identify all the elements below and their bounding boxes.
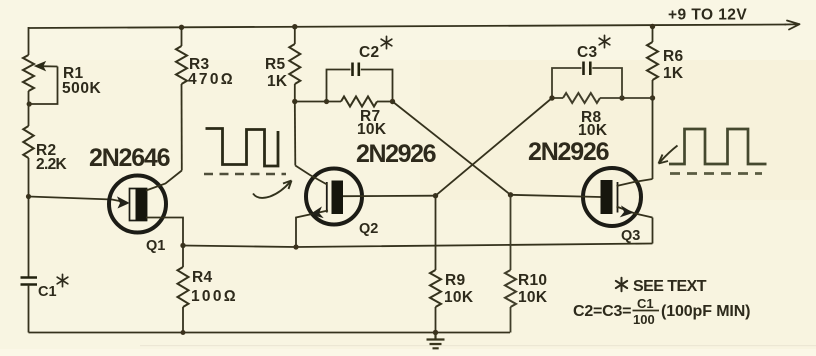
wire Q3 collector vertical	[652, 98, 654, 179]
junction dot C2 left	[324, 99, 329, 104]
svg-text:Q1: Q1	[146, 238, 165, 254]
junction dot R10 top	[508, 192, 513, 197]
wire R6 to node	[652, 80, 654, 98]
wire R7 left lead	[295, 101, 341, 103]
svg-text:2N2926: 2N2926	[356, 140, 436, 168]
resistor R4 zigzag	[178, 267, 189, 307]
wire Q2 collector vertical	[294, 102, 297, 166]
svg-text:SEE TEXT: SEE TEXT	[633, 278, 707, 295]
svg-text:R10: R10	[518, 272, 547, 289]
svg-text:1K: 1K	[267, 73, 288, 90]
transistor Q3 emitter arrowhead	[621, 206, 633, 217]
svg-text:10K: 10K	[518, 289, 548, 306]
junction dot R8 left	[549, 95, 554, 100]
wire Q2 emitter lead	[296, 211, 328, 248]
transistor Q2 base bar thin	[326, 182, 328, 213]
resistor R7 zigzag	[341, 97, 377, 107]
svg-text:10K: 10K	[444, 289, 474, 306]
junction dot emitter node	[26, 194, 31, 199]
label C2 asterisk	[381, 36, 392, 48]
wire R1 to R2	[28, 91, 30, 126]
junction dot R4 top	[180, 243, 185, 248]
wire Q2 base lead	[343, 195, 436, 198]
transistor Q2 emitter arrowhead	[311, 207, 323, 217]
wire rail to R5	[294, 27, 296, 44]
junction dot R9 top	[433, 193, 438, 198]
svg-text:R4: R4	[192, 269, 212, 286]
wire C1 to ground rail	[28, 285, 30, 333]
waveform right dashed baseline	[670, 172, 762, 175]
svg-text:C2: C2	[359, 44, 379, 61]
wire Q3 collector lead	[617, 179, 653, 186]
wire R5 to collector node	[294, 84, 296, 102]
junction dot rail R3	[179, 25, 184, 30]
wire R10 lower	[510, 307, 512, 333]
svg-text:100: 100	[633, 312, 655, 327]
resistor R10 zigzag	[505, 270, 516, 307]
transistor Q3 base bar thin	[617, 182, 619, 213]
wire Q1 base1 lead	[146, 218, 183, 246]
waveform left dashed baseline	[204, 173, 286, 176]
capacitor C2 loop right	[361, 70, 393, 102]
note fraction bar	[633, 310, 660, 312]
wire cross coupling R7 to Q3 base	[393, 102, 511, 195]
capacitor C3 loop left	[552, 68, 582, 98]
wire R4 top lead	[182, 246, 184, 268]
junction dot R8 right	[619, 95, 624, 100]
wire Q3 emitter down	[652, 218, 654, 244]
wire R10 upper	[510, 195, 512, 270]
svg-text:10K: 10K	[578, 122, 608, 139]
svg-text:C1: C1	[38, 284, 57, 300]
wire R8 zig to right lead	[600, 97, 622, 99]
wire Q2 collector lead	[295, 166, 327, 185]
transistor Q1 emitter arrowhead	[118, 198, 129, 208]
waveform right square wave	[669, 129, 767, 164]
svg-text:R6: R6	[663, 48, 683, 65]
transistor Q2 circle	[306, 169, 362, 225]
wire cross coupling R8 to Q2 base	[436, 98, 553, 196]
note asterisk	[616, 278, 627, 291]
junction dot R9 ground	[433, 330, 438, 335]
svg-text:Q3: Q3	[621, 228, 640, 244]
wire R9 lower	[435, 307, 437, 333]
wire rail to R3	[181, 27, 183, 46]
power arrowhead	[785, 21, 800, 30]
resistor R8 zigzag	[563, 93, 600, 103]
svg-text:C2=C3=: C2=C3=	[573, 303, 632, 320]
resistor R3 zigzag	[176, 46, 187, 84]
svg-text:1K: 1K	[663, 65, 684, 82]
resistor R9 zigzag	[430, 270, 441, 307]
svg-text:100Ω: 100Ω	[191, 288, 236, 305]
junction dot rail R6	[650, 24, 655, 29]
svg-text:R5: R5	[265, 56, 285, 73]
wire Q3 base lead	[511, 195, 601, 197]
transistor Q1 circle	[109, 176, 166, 233]
wire common emitter line	[183, 244, 653, 248]
capacitor C2 plates	[353, 63, 359, 77]
paper shade patches	[0, 0, 816, 60]
svg-text:Q2: Q2	[359, 221, 378, 237]
waveform left pointer arrow	[253, 182, 291, 198]
wire Q3 emitter lead	[617, 207, 653, 218]
junction dot Q2 collector node	[292, 99, 297, 104]
wire R3 to Q1 base2	[181, 84, 183, 171]
svg-text:2N2926: 2N2926	[528, 138, 609, 166]
wire R8 right lead	[622, 97, 653, 99]
resistor R5 zigzag	[289, 44, 300, 84]
label C1 asterisk	[57, 274, 68, 286]
capacitor C3 plates	[584, 62, 591, 76]
svg-text:2N2646: 2N2646	[89, 144, 170, 172]
label C3 asterisk	[599, 35, 610, 47]
potentiometer R1 wiper arrow	[40, 65, 58, 67]
svg-text:470Ω: 470Ω	[188, 71, 233, 88]
svg-text:500K: 500K	[62, 80, 102, 97]
wire Q1 emitter	[29, 197, 128, 203]
junction dot R4 bottom	[181, 330, 186, 335]
wire R7 right lead	[377, 101, 393, 103]
wire node to C1	[28, 197, 30, 278]
wire bottom ground rail	[29, 332, 511, 334]
junction dot Q3 collector node	[650, 95, 655, 100]
waveform left pointer arrowhead	[283, 181, 292, 190]
svg-text:10K: 10K	[357, 121, 387, 138]
capacitor C2 loop left	[327, 70, 351, 102]
junction dot rail R5	[292, 24, 297, 29]
junction dot Q2 emitter	[293, 244, 298, 249]
svg-text:C1: C1	[637, 296, 654, 311]
wire R4 to ground rail	[182, 307, 184, 333]
wire R2 to emitter node	[28, 158, 30, 197]
transistor Q2 base bar fill	[332, 181, 344, 215]
waveform left square wave	[206, 129, 279, 167]
resistor R1 zigzag	[23, 55, 34, 91]
svg-text:2.2K: 2.2K	[36, 156, 68, 173]
resistor R6 zigzag	[647, 42, 658, 80]
potentiometer R1 wiper wire	[29, 67, 58, 105]
ground symbol	[427, 333, 445, 349]
wire Q1 base2 lead	[146, 171, 182, 191]
resistor R2 zigzag	[23, 126, 33, 158]
wire left branch top	[28, 27, 30, 55]
svg-text:R9: R9	[445, 272, 465, 289]
transistor Q1 base bar outline	[130, 189, 147, 221]
transistor Q3 base bar fill	[601, 180, 613, 214]
junction dot R1 wiper	[27, 101, 32, 106]
wire rail to R6	[652, 27, 654, 43]
wire +V top rail	[29, 25, 787, 29]
wire R9 upper	[435, 196, 437, 270]
svg-text:(100pF MIN): (100pF MIN)	[661, 303, 751, 320]
junction dot R7 right	[390, 99, 395, 104]
svg-text:+9 TO 12V: +9 TO 12V	[668, 7, 747, 24]
capacitor C3 loop right	[592, 68, 622, 98]
capacitor C1 plates	[21, 278, 38, 285]
wire R8 left lead stub	[552, 97, 563, 99]
waveform right pointer arrowhead	[659, 155, 669, 164]
transistor Q1 base bar fill	[136, 188, 148, 221]
transistor Q3 circle	[583, 168, 641, 226]
svg-text:C3: C3	[577, 44, 597, 61]
waveform right pointer arrow	[660, 146, 678, 163]
